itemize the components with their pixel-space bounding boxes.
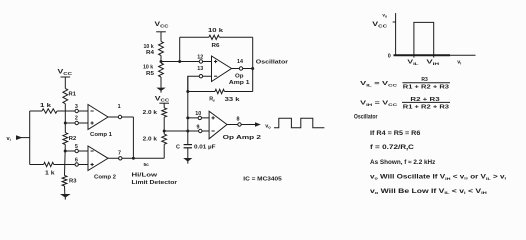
svg-text:f = 0.72/RfC: f = 0.72/RfC [370, 145, 415, 151]
svg-text:vo Will Oscillate If VIH < vi,: vo Will Oscillate If VIH < vi, or VIL > … [370, 175, 506, 181]
comparator Comp 1 [88, 105, 108, 130]
junction Rf left [186, 90, 189, 93]
resistor 2.0 k (lower) [162, 134, 167, 144]
svg-text:Op Amp 2: Op Amp 2 [223, 135, 261, 141]
comparator Comp 2 [88, 146, 108, 171]
capacitor C 0.01 uF [184, 144, 192, 146]
svg-text:2: 2 [75, 115, 78, 121]
wire input rail [29, 111, 31, 165]
resistor R6 10 k [180, 36, 209, 38]
svg-text:Comp 2: Comp 2 [94, 175, 116, 181]
wire 1k bottom to pin 6 [54, 164, 88, 166]
wire node to pin 5 [65, 150, 88, 152]
ground (below R5) [160, 77, 162, 88]
svg-text:0.01 µF: 0.01 µF [194, 144, 216, 150]
ground (left divider) [64, 186, 66, 194]
resistor R5 10 k [159, 63, 164, 77]
graph tick V_IL [413, 55, 415, 57]
svg-text:Amp 1: Amp 1 [229, 80, 250, 86]
input arrow [16, 135, 23, 140]
wire 2k mid [163, 117, 165, 134]
wire feedback rail [187, 76, 189, 144]
wire node to pin 9 [164, 130, 209, 132]
wire pin 10 [188, 117, 209, 119]
wire pin 13 [188, 76, 212, 91]
pin 1 terminal [118, 115, 121, 118]
svg-text:vo: vo [382, 13, 387, 19]
svg-text:R4: R4 [146, 50, 154, 56]
svg-text:VIH: VIH [426, 60, 439, 66]
wire R1 to R2 [64, 104, 66, 133]
resistor R1 [63, 88, 68, 103]
svg-text:As Shown, f ≈ 2.2 kHz: As Shown, f ≈ 2.2 kHz [370, 160, 435, 166]
junction comp outputs [132, 157, 135, 160]
svg-text:vi: vi [457, 60, 461, 66]
graph Vcc tick [393, 21, 396, 23]
svg-text:1 k: 1 k [40, 103, 51, 109]
svg-text:Limit Detector: Limit Detector [132, 180, 179, 186]
wire 2k bottom to bus [163, 144, 165, 158]
wire comp1 output [108, 116, 133, 118]
svg-text:10 k: 10 k [144, 44, 154, 50]
square wave symbol [274, 118, 324, 128]
wire node to pin 2 [65, 122, 88, 124]
svg-text:vi: vi [7, 136, 11, 142]
svg-text:Oscillator: Oscillator [354, 114, 378, 120]
junction pin 12 node [160, 60, 163, 63]
svg-text:Rf: Rf [209, 97, 215, 103]
wire R6 right leg [252, 37, 254, 91]
svg-text:Op: Op [235, 74, 244, 80]
junction output 14 [251, 67, 254, 70]
graph pulse [414, 22, 434, 55]
svg-text:R5: R5 [146, 71, 154, 77]
resistor R3 [62, 176, 67, 187]
svg-text:0: 0 [388, 53, 391, 59]
wire R2 to R3 [64, 145, 67, 176]
pin 3 terminal [75, 109, 78, 112]
junction 2k divider node [163, 130, 166, 133]
svg-text:VCC: VCC [372, 22, 387, 28]
svg-text:VCC: VCC [58, 70, 73, 76]
pin 8 terminal [238, 123, 241, 126]
svg-text:IC = MC3405: IC = MC3405 [243, 177, 281, 183]
wire R4 to node [160, 56, 162, 64]
pin 2 terminal [75, 121, 78, 124]
pin 14 terminal [239, 67, 242, 70]
svg-text:7: 7 [118, 151, 121, 157]
wire comp2 output [108, 157, 164, 159]
svg-text:R6: R6 [212, 43, 220, 49]
svg-text:VIL = VCC: VIL = VCC [360, 81, 397, 87]
resistor R2 [63, 133, 68, 145]
junction R6 left [178, 60, 181, 63]
svg-text:C: C [176, 145, 180, 151]
wire comp1 to output bus [132, 117, 134, 158]
junction pin 2 node [64, 122, 67, 125]
svg-text:R2: R2 [69, 136, 77, 142]
pin 9 terminal [199, 129, 202, 132]
pin 10 terminal [198, 116, 201, 119]
svg-text:10 k: 10 k [208, 28, 223, 34]
wire op amp 2 output [227, 124, 258, 126]
svg-text:14: 14 [237, 59, 243, 65]
svg-text:vo: vo [265, 124, 271, 130]
graph x-axis [394, 54, 451, 56]
svg-text:R1 + R2 + R3: R1 + R2 + R3 [403, 105, 450, 111]
pin 6 terminal [75, 163, 78, 166]
svg-text:VIL: VIL [407, 60, 419, 66]
svg-text:vo Will Be Low If VIL < vi < V: vo Will Be Low If VIL < vi < VIH [370, 189, 487, 195]
svg-text:If R4 = R5 = R6: If R4 = R5 = R6 [370, 131, 421, 137]
op-amp Op Amp 1 [212, 56, 232, 82]
graph tick V_IH [433, 55, 435, 57]
svg-text:33 k: 33 k [225, 97, 240, 103]
svg-text:2.0 k: 2.0 k [143, 110, 157, 116]
svg-text:5c: 5c [144, 162, 150, 168]
resistor 2.0 k (upper) [162, 108, 167, 117]
wire to 1k top [30, 110, 42, 112]
svg-text:8: 8 [237, 117, 240, 123]
resistor R4 10 k [159, 41, 164, 55]
svg-text:R1 + R2 + R3: R1 + R2 + R3 [403, 85, 450, 91]
wire pin 12 [161, 61, 212, 63]
pin 5 terminal [75, 149, 78, 152]
svg-text:R3: R3 [69, 179, 77, 185]
svg-text:R1: R1 [69, 92, 77, 98]
svg-text:Comp 1: Comp 1 [90, 132, 112, 138]
pin 13 terminal [199, 75, 202, 78]
svg-text:13: 13 [197, 66, 203, 72]
pin 7 terminal [119, 157, 122, 160]
svg-text:2.0 k: 2.0 k [143, 136, 157, 142]
junction pin 10 rail [186, 116, 189, 119]
svg-text:1 k: 1 k [45, 171, 55, 177]
wire 1k top to pin 3 [57, 110, 88, 112]
resistor 1 k (top) [42, 109, 57, 113]
op-amp Op Amp 2 [209, 111, 227, 139]
svg-text:1: 1 [118, 104, 121, 110]
svg-text:R3: R3 [421, 77, 428, 83]
svg-text:Oscillator: Oscillator [256, 59, 289, 65]
wire R6 left leg [179, 37, 181, 61]
junction pin 9 rail [186, 130, 189, 133]
svg-text:10 k: 10 k [143, 65, 153, 71]
svg-text:Hi/Low: Hi/Low [132, 173, 159, 179]
svg-text:VCC: VCC [155, 96, 169, 102]
graph y-axis [395, 13, 397, 55]
svg-text:VCC: VCC [155, 22, 169, 28]
wire to 1k bottom [30, 164, 44, 166]
wire op amp 1 output [232, 68, 253, 70]
ground (below C) [187, 148, 189, 158]
resistor 1 k (bottom) [44, 162, 54, 166]
svg-text:VIH = VCC: VIH = VCC [360, 101, 397, 107]
resistor Rf 33 k [188, 91, 215, 93]
pin 12 terminal [199, 60, 202, 63]
junction pin 5 node [64, 150, 67, 153]
